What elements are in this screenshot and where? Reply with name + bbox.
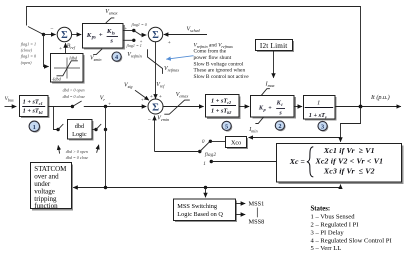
svg-text:dbd: dbd: [75, 123, 85, 130]
svg-text:+: +: [124, 26, 127, 31]
svg-text:flag1 = 1: flag1 = 1: [21, 41, 36, 46]
svg-text:-Idbd: -Idbd: [52, 76, 62, 81]
svg-text:1: 1: [317, 99, 320, 106]
svg-text:dbd > 0 open: dbd > 0 open: [63, 88, 85, 93]
svg-text:Vrefmin: Vrefmin: [127, 52, 141, 59]
svg-text:Vbus: Vbus: [5, 96, 14, 102]
svg-text:1: 1: [203, 161, 206, 167]
svg-text:2: 2: [278, 123, 281, 130]
svg-text:flag2: flag2: [205, 151, 217, 158]
svg-text:1 – Vbus Sensed: 1 – Vbus Sensed: [311, 214, 356, 221]
svg-text:Vemax: Vemax: [176, 92, 189, 99]
svg-text:Vrefmax: Vrefmax: [164, 66, 179, 73]
svg-text:+: +: [59, 46, 62, 52]
svg-text:+: +: [99, 32, 103, 39]
svg-text:+: +: [159, 94, 162, 100]
svg-text:0: 0: [202, 139, 205, 145]
svg-text:4 – Regulated Slow Control PI: 4 – Regulated Slow Control PI: [311, 237, 392, 244]
svg-text:is: is: [112, 32, 115, 37]
svg-text:Vsig: Vsig: [124, 82, 133, 89]
svg-text:1 + sTv: 1 + sTv: [309, 112, 327, 120]
svg-text:+: +: [268, 105, 271, 111]
svg-text:flag1 = 0: flag1 = 0: [21, 53, 36, 58]
svg-text:2 – Regulated I PI: 2 – Regulated I PI: [311, 222, 359, 229]
svg-text:It (p.u.): It (p.u.): [370, 94, 390, 101]
svg-text:5: 5: [225, 123, 228, 130]
svg-text:s: s: [109, 38, 113, 45]
svg-text:Vref: Vref: [156, 82, 165, 89]
svg-text:Σ: Σ: [61, 30, 68, 41]
svg-text:(close): (close): [21, 48, 33, 53]
svg-text:I2t Limit: I2t Limit: [260, 42, 288, 50]
svg-text:ps: ps: [91, 36, 96, 41]
svg-text:Vsched: Vsched: [187, 26, 201, 33]
svg-text:+: +: [141, 98, 144, 103]
svg-text:+: +: [168, 40, 171, 46]
svg-text:Σ: Σ: [152, 30, 159, 41]
svg-text:Bref: Bref: [67, 43, 76, 50]
svg-text:s: s: [278, 110, 282, 117]
svg-text:+: +: [150, 94, 153, 100]
svg-text:Xco: Xco: [231, 139, 241, 146]
svg-text:Xc2 if V2 < Vr < V1: Xc2 if V2 < Vr < V1: [315, 156, 384, 165]
svg-text:Σ: Σ: [152, 102, 159, 113]
svg-text:Vr: Vr: [100, 95, 106, 102]
svg-text:−: −: [50, 27, 53, 33]
svg-text:flag1 = 0: flag1 = 0: [132, 22, 147, 27]
svg-text:Logic: Logic: [72, 131, 87, 138]
svg-text:flag1 = 1: flag1 = 1: [127, 43, 142, 48]
svg-text:Xc =: Xc =: [289, 157, 306, 166]
svg-text:Vemin: Vemin: [157, 116, 169, 123]
svg-text:Idbd: Idbd: [68, 56, 78, 61]
svg-text:Slow B control not active: Slow B control not active: [194, 74, 250, 80]
svg-text:Xc1 if Vr ≥ V1: Xc1 if Vr ≥ V1: [323, 146, 375, 155]
svg-text:Xc3 if Vr ≤ V2: Xc3 if Vr ≤ V2: [323, 167, 375, 176]
svg-text:States:: States:: [311, 206, 331, 213]
svg-text:MSS Switching: MSS Switching: [177, 203, 218, 210]
svg-text:Imin: Imin: [248, 127, 257, 134]
svg-text:5 – Verr LL: 5 – Verr LL: [311, 245, 342, 252]
svg-text:Vsmax: Vsmax: [105, 9, 117, 16]
svg-text:3: 3: [321, 123, 324, 130]
svg-text:−: −: [148, 117, 151, 123]
svg-text:Come from the: Come from the: [194, 48, 227, 55]
svg-text:1: 1: [33, 124, 36, 131]
svg-text:Slow B voltage control: Slow B voltage control: [194, 61, 244, 67]
svg-text:+: +: [108, 103, 111, 108]
svg-text:Logic Based on Q: Logic Based on Q: [177, 211, 223, 218]
svg-text:dbd = 0 close: dbd = 0 close: [63, 94, 86, 99]
svg-text:dbd = 0 close: dbd = 0 close: [66, 155, 89, 160]
svg-text:These are ignored when: These are ignored when: [194, 68, 246, 74]
svg-text:(open): (open): [21, 60, 32, 65]
svg-text:MSS1: MSS1: [249, 200, 265, 207]
svg-text:Vsmin: Vsmin: [90, 56, 102, 63]
svg-text:power flow shunt: power flow shunt: [194, 54, 232, 61]
svg-text:function: function: [34, 202, 58, 210]
svg-text:Imax: Imax: [265, 82, 275, 89]
svg-text:3 – PI Delay: 3 – PI Delay: [311, 229, 345, 236]
svg-text:MSS8: MSS8: [249, 219, 265, 226]
svg-text:dbd > 0 open: dbd > 0 open: [66, 149, 88, 154]
svg-text:+: +: [140, 39, 143, 44]
